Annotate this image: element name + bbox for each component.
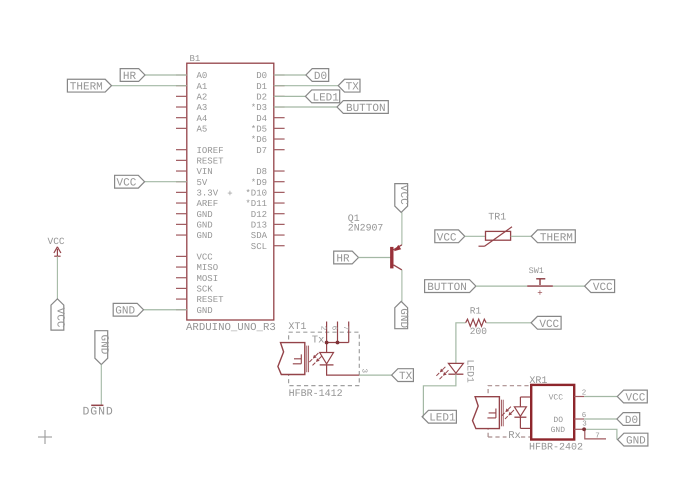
pin IOREF (left, row 7) of B1 — [176, 146, 224, 156]
svg-text:+: + — [227, 189, 232, 199]
ground flag GND (above DGND) — [95, 331, 109, 365]
wire XR1 pin3 to GND flag — [584, 429, 617, 439]
svg-text:IOREF: IOREF — [197, 146, 224, 156]
net flag BUTTON (left of SW1) — [425, 280, 476, 294]
ground flag GND (below Q1) — [395, 301, 409, 328]
power flag VCC (vertical, far left) — [51, 299, 65, 330]
pin *D5 (right, row 5) of B1 — [251, 124, 285, 134]
wire VCC flag to Q1 emitter — [401, 212, 403, 244]
pin GND (left, row 22) of B1 — [176, 306, 213, 316]
pin D2 (right, row 2) of B1 — [256, 92, 284, 102]
net flag THERM — [67, 79, 111, 93]
svg-text:GND: GND — [397, 308, 409, 328]
svg-text:AREF: AREF — [197, 199, 219, 209]
wire R1 to LED1 anode — [456, 323, 466, 364]
svg-text:B1: B1 — [190, 54, 201, 64]
svg-text:VCC: VCC — [626, 393, 646, 405]
net flag BUTTON — [337, 101, 388, 115]
module XT1 HFBR-1412 dashed outline — [289, 332, 360, 385]
svg-text:R1: R1 — [470, 306, 482, 317]
origin crosshair — [38, 430, 52, 444]
emission arrow 2 (XT1) — [313, 356, 322, 365]
ground symbol DGND — [83, 405, 114, 418]
svg-text:GND: GND — [197, 231, 213, 241]
svg-text:GND: GND — [197, 306, 213, 316]
svg-text:D0: D0 — [256, 71, 267, 81]
svg-text:VCC: VCC — [117, 178, 137, 190]
module XR1 HFBR-2402 dashed outline — [488, 386, 531, 437]
reception arrow 2 (XR1) — [505, 410, 514, 419]
svg-text:HR: HR — [123, 71, 137, 83]
emitter LED of XT1 — [320, 353, 334, 365]
wire VCC flag to TR1 — [465, 235, 486, 237]
svg-text:*D10: *D10 — [245, 188, 267, 198]
wire GND to B1 GND — [144, 309, 187, 311]
power flag VCC (left of TR1) — [435, 230, 465, 244]
svg-text:GND: GND — [626, 436, 646, 448]
svg-text:Tx: Tx — [312, 334, 325, 346]
pin *D11 (right, row 12) of B1 — [245, 199, 284, 209]
pin *D3 (right, row 3) of B1 — [251, 103, 285, 113]
svg-text:BUTTON: BUTTON — [346, 103, 386, 115]
svg-text:7: 7 — [595, 432, 600, 440]
pin 6 of XT1 — [330, 322, 339, 343]
ground flag GND (XR1) — [618, 433, 648, 447]
photodiode of XR1 — [514, 397, 526, 428]
pin D8 (right, row 9) of B1 — [256, 167, 284, 177]
pin A3 (left, row 3) of B1 — [176, 103, 207, 113]
wire HR to B1 A0 — [145, 74, 187, 76]
pin A4 (left, row 4) of B1 — [176, 114, 207, 124]
svg-text:THERM: THERM — [70, 82, 103, 94]
wire B1 D0 to D0 flag — [274, 74, 306, 76]
svg-text:XT1: XT1 — [288, 322, 306, 333]
svg-text:SCL: SCL — [251, 242, 267, 252]
junction dot pin2/anode — [325, 341, 329, 345]
svg-text:VCC: VCC — [539, 319, 559, 331]
junction dot pin6 — [336, 341, 340, 345]
svg-text:GND: GND — [197, 210, 213, 220]
svg-text:TX: TX — [399, 371, 413, 383]
svg-text:7: 7 — [341, 326, 349, 331]
svg-text:MISO: MISO — [197, 263, 219, 273]
pin GND (left, row 15) of B1 — [176, 231, 213, 241]
power flag VCC (above Q1) — [395, 184, 409, 213]
wire THERM to B1 A1 — [112, 85, 187, 87]
pin 3 of XR1 — [574, 420, 587, 430]
svg-text:A2: A2 — [197, 92, 208, 102]
svg-text:TX: TX — [346, 82, 360, 94]
pin 2 of XR1 — [574, 389, 586, 398]
svg-text:GND: GND — [115, 306, 135, 318]
pin GND (left, row 13) of B1 — [176, 210, 213, 220]
wire XT1 pin3 to TX flag — [359, 374, 391, 376]
net flag LED1 (bottom) — [422, 410, 456, 424]
wire BUTTON flag to SW1 — [476, 285, 527, 287]
pin D4 (right, row 4) of B1 — [256, 114, 284, 124]
pin SCK (left, row 20) of B1 — [176, 285, 213, 295]
svg-text:TR1: TR1 — [488, 213, 506, 224]
wire SW1 to VCC flag — [553, 285, 585, 287]
pin RESET (left, row 8) of B1 — [176, 156, 224, 166]
pin A1 (left, row 1) of B1 — [176, 82, 207, 92]
svg-text:*D11: *D11 — [245, 199, 267, 209]
power flag VCC (XR1) — [617, 390, 647, 404]
IC body XR1 — [531, 385, 574, 440]
wire B1 D3 to BUTTON flag — [274, 106, 337, 108]
svg-text:THERM: THERM — [540, 232, 573, 244]
svg-text:D4: D4 — [256, 114, 267, 124]
wire Q1 collector to GND flag — [401, 270, 403, 302]
wire XR1 pin6 to D0 flag — [584, 418, 617, 420]
wire R1 to VCC flag — [486, 322, 531, 324]
svg-text:GND: GND — [551, 426, 566, 435]
svg-text:VCC: VCC — [197, 252, 214, 262]
net flag D0 — [306, 69, 329, 83]
svg-text:VCC: VCC — [593, 282, 613, 294]
svg-text:HFBR-2402: HFBR-2402 — [529, 443, 583, 454]
pin SCL (right, row 16) of B1 — [251, 242, 285, 252]
svg-text:D12: D12 — [251, 210, 267, 220]
svg-text:2: 2 — [319, 326, 328, 331]
pin D12 (right, row 13) of B1 — [251, 210, 285, 220]
net flag LED1 — [305, 90, 339, 104]
wire bus pins 2-6-7 of XT1 — [327, 342, 349, 344]
pin 7 of XT1 — [341, 322, 349, 343]
pin SDA (right, row 15) of B1 — [251, 231, 285, 241]
power flag VCC (right of SW1) — [585, 280, 615, 294]
net flag D0 (XR1) — [617, 413, 640, 427]
svg-text:A0: A0 — [197, 71, 208, 81]
svg-text:VIN: VIN — [197, 167, 213, 177]
pin 6 of XR1 — [574, 411, 587, 420]
svg-text:GND: GND — [197, 220, 213, 230]
wire HR flag to Q1 base — [359, 257, 391, 259]
pin D13 (right, row 14) of B1 — [251, 220, 285, 230]
svg-text:VCC: VCC — [53, 308, 65, 328]
svg-text:ARDUINO_UNO_R3: ARDUINO_UNO_R3 — [186, 322, 276, 334]
pin GND (left, row 14) of B1 — [176, 220, 213, 230]
net flag TX — [338, 79, 360, 93]
svg-text:SCK: SCK — [197, 285, 214, 295]
svg-text:D8: D8 — [256, 167, 267, 177]
svg-text:LED1: LED1 — [429, 413, 456, 425]
fiber connector of XR1 — [473, 397, 504, 429]
LED LED1 — [436, 360, 475, 383]
thermistor TR1 — [479, 213, 513, 247]
pin MOSI (left, row 19) of B1 — [176, 274, 218, 284]
svg-text:VCC: VCC — [437, 232, 457, 244]
svg-text:+: + — [537, 289, 542, 299]
svg-text:VCC: VCC — [397, 185, 409, 205]
power flag VCC (5V pin) — [115, 175, 145, 189]
pin AREF (left, row 12) of B1 — [176, 199, 218, 209]
wire LED cathode to pin 3 (XT1) — [327, 365, 360, 375]
svg-text:BUTTON: BUTTON — [427, 282, 467, 294]
svg-text:VCC: VCC — [48, 236, 65, 247]
svg-text:6: 6 — [330, 326, 339, 331]
pin D1 (right, row 1) of B1 — [256, 82, 284, 92]
wire B1 D1 to TX flag — [274, 85, 338, 87]
svg-text:MOSI: MOSI — [197, 274, 219, 284]
transistor Q1 2N2907 (PNP) — [348, 213, 402, 270]
net flag HR (Q1 base) — [334, 251, 359, 265]
svg-text:SDA: SDA — [251, 231, 268, 241]
pin D0 (right, row 0) of B1 — [256, 71, 284, 81]
power flag VCC (right of R1) — [531, 316, 561, 330]
svg-text:HR: HR — [336, 254, 350, 266]
wire photodiode bottom to XR1 box — [520, 427, 531, 429]
net flag HR — [120, 69, 145, 83]
pin D7 (right, row 7) of B1 — [256, 146, 284, 156]
net flag THERM (right of TR1) — [531, 230, 575, 244]
wire VCC to B1 5V — [145, 181, 187, 183]
IC B1 ARDUINO_UNO_R3 — [186, 54, 276, 334]
junction dot XR1 pin3/pin7 — [582, 427, 586, 431]
svg-text:LED1: LED1 — [465, 360, 476, 383]
supply symbol VCC (arrow) — [48, 236, 65, 256]
wire bus to LED anode (XT1) — [326, 343, 328, 353]
pin VCC (left, row 17) of B1 — [176, 252, 213, 262]
svg-text:200: 200 — [470, 326, 487, 337]
pin 2 of XT1 — [319, 322, 328, 343]
wire VCC arrow to VCC flag — [56, 256, 58, 299]
pin *D9 (right, row 10) of B1 — [251, 178, 285, 188]
pin 3.3V (left, row 11) of B1 — [176, 188, 219, 198]
svg-text:SW1: SW1 — [529, 266, 544, 276]
svg-text:DO: DO — [553, 416, 563, 425]
pin RESET (left, row 21) of B1 — [176, 295, 224, 305]
wire B1 D2 to LED1 flag — [274, 95, 306, 97]
svg-text:D0: D0 — [314, 71, 327, 83]
emission arrow 1 (XT1) — [309, 353, 318, 362]
wire GND flag to DGND — [100, 365, 102, 406]
resistor R1 200 — [466, 306, 488, 338]
svg-text:A1: A1 — [197, 82, 208, 92]
svg-text:VCC: VCC — [549, 393, 564, 402]
pin *D10 (right, row 11) of B1 — [245, 188, 284, 198]
wire photodiode top to XR1 box — [520, 396, 531, 398]
pin A5 (left, row 5) of B1 — [176, 124, 207, 134]
svg-text:GND: GND — [97, 335, 109, 355]
pin 5V (left, row 10) of B1 — [176, 178, 208, 188]
ground flag GND (B1 bottom GND pin) — [113, 303, 143, 317]
pin MISO (left, row 18) of B1 — [176, 263, 218, 273]
wire XR1 pin2 to VCC flag — [584, 396, 617, 398]
wire LED1 cathode to LED1 flag — [423, 374, 456, 417]
pin A2 (left, row 2) of B1 — [176, 92, 207, 102]
svg-text:3.3V: 3.3V — [197, 188, 219, 198]
svg-text:RESET: RESET — [197, 295, 225, 305]
svg-text:5V: 5V — [197, 178, 208, 188]
reception arrow 1 (XR1) — [502, 407, 511, 416]
svg-text:*D3: *D3 — [251, 103, 267, 113]
svg-text:HFBR-1412: HFBR-1412 — [289, 389, 343, 400]
svg-text:DGND: DGND — [83, 405, 114, 418]
svg-text:A4: A4 — [197, 114, 208, 124]
pin VIN (left, row 9) of B1 — [176, 167, 213, 177]
svg-text:D0: D0 — [625, 415, 638, 427]
net flag TX (XT1) — [392, 369, 414, 383]
wire TR1 to THERM flag — [511, 235, 532, 237]
svg-text:D2: D2 — [256, 92, 267, 102]
pin A0 (left, row 0) of B1 — [176, 71, 207, 81]
pin 7 of XR1 — [585, 429, 606, 440]
svg-text:D7: D7 — [256, 146, 267, 156]
svg-text:A5: A5 — [197, 124, 208, 134]
svg-text:Rx: Rx — [508, 430, 521, 442]
svg-text:2N2907: 2N2907 — [348, 223, 384, 234]
svg-text:LED1: LED1 — [312, 92, 339, 104]
switch SW1 — [527, 266, 553, 299]
svg-text:*D5: *D5 — [251, 124, 267, 134]
svg-text:3: 3 — [359, 368, 368, 373]
svg-text:D1: D1 — [256, 82, 267, 92]
fiber connector of XT1 — [278, 343, 309, 375]
svg-text:RESET: RESET — [197, 156, 225, 166]
svg-text:D13: D13 — [251, 220, 267, 230]
svg-text:*D9: *D9 — [251, 178, 267, 188]
pin *D6 (right, row 6) of B1 — [251, 135, 285, 145]
svg-text:3: 3 — [582, 420, 587, 429]
svg-text:*D6: *D6 — [251, 135, 267, 145]
svg-text:A3: A3 — [197, 103, 208, 113]
